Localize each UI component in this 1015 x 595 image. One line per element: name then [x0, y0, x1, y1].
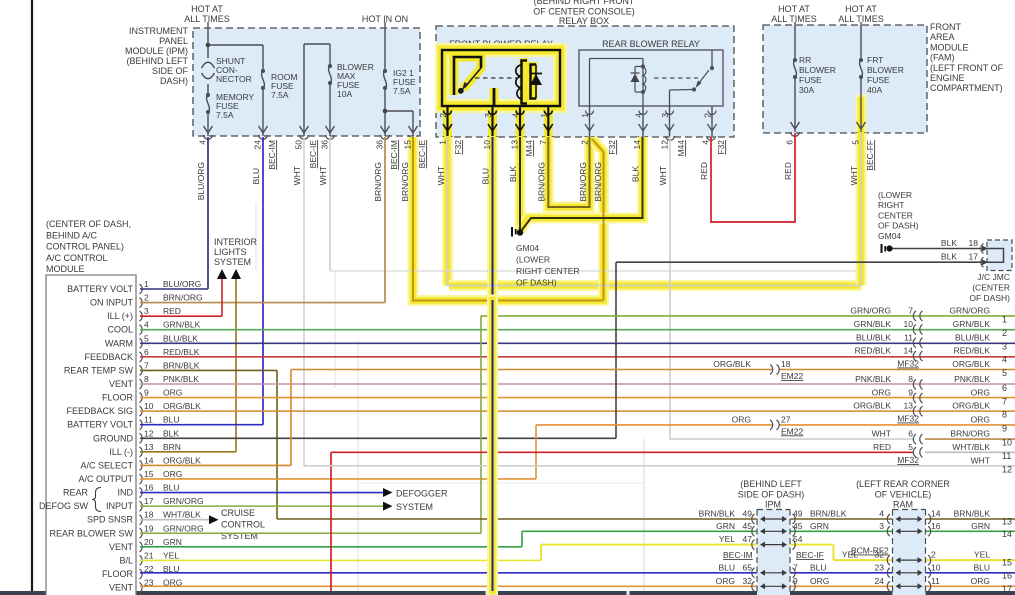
- svg-text:40A: 40A: [867, 85, 882, 95]
- svg-text:13: 13: [904, 401, 914, 411]
- svg-text:GRN/ORG: GRN/ORG: [163, 496, 204, 506]
- svg-text:REAR BLOWER SW: REAR BLOWER SW: [49, 528, 133, 538]
- svg-text:WHT: WHT: [872, 429, 891, 439]
- svg-text:(LOWER: (LOWER: [516, 255, 550, 265]
- wire row15 ORG: [140, 478, 536, 480]
- svg-text:BCM-RF2: BCM-RF2: [851, 546, 889, 556]
- rear relay dashed link: [654, 77, 698, 79]
- RR blower fuse: [793, 58, 797, 62]
- svg-text:WHT: WHT: [318, 166, 328, 185]
- svg-text:14: 14: [144, 455, 154, 465]
- svg-text:BLU: BLU: [251, 168, 261, 185]
- svg-text:ORG: ORG: [971, 388, 990, 398]
- svg-text:ORG: ORG: [716, 576, 735, 586]
- svg-text:BLU: BLU: [973, 562, 990, 572]
- memory fuse F: [207, 84, 209, 95]
- svg-text:FUSE: FUSE: [799, 75, 822, 85]
- svg-text:BLU: BLU: [718, 562, 735, 572]
- svg-text:4: 4: [879, 509, 884, 519]
- svg-text:BRN/BLK: BRN/BLK: [954, 509, 991, 519]
- front relay pin2 terminal bracket: [454, 57, 481, 95]
- svg-text:4: 4: [1002, 355, 1007, 365]
- wire FRT fuse out: [860, 77, 862, 132]
- svg-text:1: 1: [580, 113, 590, 118]
- svg-text:13: 13: [144, 442, 154, 452]
- svg-text:7: 7: [793, 562, 798, 572]
- svg-text:18: 18: [144, 510, 154, 520]
- svg-text:BEC-IE: BEC-IE: [308, 140, 318, 169]
- svg-text:WARM: WARM: [105, 338, 133, 348]
- svg-text:5: 5: [144, 333, 149, 343]
- wire row14 ORG/BLK: [140, 464, 291, 466]
- svg-text:AREA: AREA: [930, 32, 955, 42]
- wire WHT link to FAM feed: [330, 270, 856, 272]
- svg-text:WHT: WHT: [971, 455, 990, 465]
- IPM connector arrows: [752, 514, 755, 524]
- svg-text:FLOOR: FLOOR: [102, 569, 134, 579]
- svg-text:A/C OUTPUT: A/C OUTPUT: [78, 474, 133, 484]
- wire BRN/ORG right row10: [925, 438, 1015, 440]
- svg-text:J/C JMC: J/C JMC: [977, 272, 1010, 282]
- svg-text:ORG/BLK: ORG/BLK: [853, 401, 891, 411]
- wire WHT M44-12 rear blower out: [670, 137, 913, 439]
- svg-text:11: 11: [1002, 451, 1011, 461]
- highlight FRT fuse out: [856, 100, 867, 133]
- svg-text:BLU: BLU: [163, 483, 180, 493]
- svg-text:BRN/ORG: BRN/ORG: [950, 429, 990, 439]
- ghost line vertical d: [255, 203, 257, 270]
- svg-text:WHT: WHT: [292, 166, 302, 185]
- svg-text:18: 18: [781, 359, 791, 369]
- svg-text:7.5A: 7.5A: [271, 90, 289, 100]
- svg-text:12: 12: [1002, 464, 1012, 474]
- svg-text:54: 54: [793, 534, 803, 544]
- svg-text:11: 11: [904, 332, 913, 342]
- svg-text:INPUT: INPUT: [106, 501, 134, 511]
- svg-text:10: 10: [904, 319, 914, 329]
- rear relay diode: [634, 67, 636, 93]
- svg-text:6: 6: [908, 429, 913, 439]
- highlighter f32 feed: [413, 137, 604, 301]
- svg-text:IPM: IPM: [765, 500, 781, 510]
- svg-text:OF DASH): OF DASH): [969, 293, 1010, 303]
- RAM connector arrows: [887, 514, 890, 524]
- svg-text:REAR: REAR: [63, 488, 89, 498]
- svg-text:(CENTER OF DASH,: (CENTER OF DASH,: [46, 219, 131, 229]
- svg-text:WHT/BLK: WHT/BLK: [952, 442, 990, 452]
- wire ig2 out: [384, 88, 386, 136]
- svg-text:YEL: YEL: [974, 550, 990, 560]
- svg-text:16: 16: [144, 483, 154, 493]
- bottom dark bar: [0, 591, 1015, 595]
- svg-text:6: 6: [1002, 383, 1007, 393]
- relay box: [436, 26, 734, 137]
- wire BRN/ORG F32-7 coil U: [548, 137, 589, 207]
- svg-text:PANEL: PANEL: [159, 36, 188, 46]
- svg-text:MF32: MF32: [897, 455, 919, 465]
- svg-text:FRONT: FRONT: [930, 22, 961, 32]
- svg-text:11: 11: [931, 576, 940, 586]
- svg-text:BATTERY VOLT: BATTERY VOLT: [67, 420, 133, 430]
- svg-text:GRN: GRN: [716, 521, 735, 531]
- svg-text:3: 3: [879, 521, 884, 531]
- svg-text:45: 45: [743, 521, 753, 531]
- wire BLK M44-13 front ground: [519, 137, 521, 231]
- svg-text:RED/BLK: RED/BLK: [163, 347, 200, 357]
- svg-text:COMPARTMENT): COMPARTMENT): [930, 83, 1003, 93]
- svg-text:10: 10: [144, 401, 154, 411]
- svg-text:18: 18: [969, 238, 979, 248]
- svg-text:VENT: VENT: [109, 583, 134, 593]
- svg-text:BRN/ORG: BRN/ORG: [400, 162, 410, 202]
- svg-text:15: 15: [1002, 558, 1012, 568]
- svg-text:20: 20: [144, 537, 154, 547]
- svg-text:BLK: BLK: [941, 238, 957, 248]
- wire BLK to JC 18: [893, 248, 983, 250]
- svg-text:GRN: GRN: [163, 537, 182, 547]
- front relay U1 outline: [442, 50, 560, 106]
- wire RED MF32-5: [330, 452, 332, 591]
- svg-text:3: 3: [1002, 341, 1007, 351]
- svg-text:24: 24: [253, 140, 263, 150]
- svg-text:14: 14: [632, 140, 642, 150]
- svg-text:BLU/BLK: BLU/BLK: [955, 332, 990, 342]
- front relay switch arm: [465, 68, 482, 88]
- svg-text:HOT AT: HOT AT: [191, 4, 223, 14]
- svg-text:IND: IND: [118, 488, 134, 498]
- svg-text:2: 2: [1002, 328, 1007, 338]
- wire blower max loop: [303, 44, 305, 136]
- front relay diode: [535, 65, 537, 99]
- wire WHT MF32 row12: [304, 465, 1015, 467]
- wire row4 GRN/BLK: [140, 329, 1015, 331]
- svg-text:PNK/BLK: PNK/BLK: [855, 374, 891, 384]
- svg-text:WHT: WHT: [849, 166, 859, 185]
- svg-text:YEL: YEL: [719, 534, 735, 544]
- svg-text:2: 2: [580, 140, 590, 145]
- svg-text:(LOWER: (LOWER: [878, 190, 912, 200]
- svg-text:MODULE: MODULE: [930, 42, 969, 52]
- front relay coil brackets: [522, 61, 528, 104]
- wire row1 BLU/ORG: [140, 288, 208, 290]
- svg-text:FLOOR: FLOOR: [102, 393, 134, 403]
- wire BLU F32-10 front blower out: [492, 137, 494, 310]
- svg-text:3: 3: [660, 113, 670, 118]
- wire row9 ORG: [140, 397, 1015, 399]
- svg-text:BLOWER: BLOWER: [799, 65, 836, 75]
- svg-text:RED: RED: [163, 306, 181, 316]
- svg-text:SYSTEM: SYSTEM: [214, 257, 251, 267]
- svg-text:WHT/BLK: WHT/BLK: [163, 510, 201, 520]
- svg-text:FEEDBACK: FEEDBACK: [84, 352, 133, 362]
- svg-text:23: 23: [875, 562, 885, 572]
- svg-text:9: 9: [908, 388, 913, 398]
- svg-text:GRN/ORG: GRN/ORG: [850, 305, 891, 315]
- svg-text:GRN/BLK: GRN/BLK: [854, 319, 892, 329]
- svg-text:(LEFT REAR CORNER: (LEFT REAR CORNER: [856, 479, 950, 489]
- svg-text:2: 2: [703, 113, 713, 118]
- svg-text:BLK: BLK: [508, 166, 518, 182]
- svg-text:SPD SNSR: SPD SNSR: [87, 515, 134, 525]
- wire row7 BRN/BLK to bottom: [140, 369, 277, 371]
- jumper inside JC: [986, 249, 1004, 263]
- svg-text:12: 12: [660, 140, 670, 150]
- svg-text:ORG: ORG: [872, 388, 891, 398]
- svg-text:16: 16: [1002, 570, 1012, 580]
- svg-text:5: 5: [1002, 368, 1007, 378]
- svg-text:PNK/BLK: PNK/BLK: [954, 374, 990, 384]
- svg-text:9: 9: [1002, 423, 1007, 433]
- svg-text:65: 65: [743, 562, 753, 572]
- svg-text:1: 1: [438, 140, 448, 145]
- wire RR fuse feed: [794, 22, 796, 60]
- svg-text:49: 49: [793, 509, 803, 519]
- wire row2 BRN/ORG: [140, 302, 385, 304]
- ig2 fuse: [383, 69, 387, 73]
- svg-text:BEC-IM: BEC-IM: [267, 140, 277, 170]
- svg-text:(BEHIND RIGHT FRONT: (BEHIND RIGHT FRONT: [534, 0, 635, 6]
- svg-text:BRN/ORG: BRN/ORG: [593, 162, 603, 202]
- svg-text:SIDE OF DASH): SIDE OF DASH): [738, 490, 805, 500]
- svg-text:ORG: ORG: [163, 469, 182, 479]
- svg-text:36: 36: [375, 140, 385, 150]
- wire BRN/ORG F32-2 feed diagonal: [592, 139, 604, 301]
- wire memory fuse out: [207, 112, 209, 136]
- wire room fuse out: [262, 88, 264, 136]
- highlighter blk gm04: [515, 137, 526, 232]
- shunt connector symbol: [202, 62, 215, 68]
- svg-text:BRN: BRN: [163, 442, 181, 452]
- AC control module box: [46, 275, 136, 595]
- wire row16 BLU defogger: [140, 492, 384, 494]
- svg-text:A/C CONTROL: A/C CONTROL: [46, 253, 108, 263]
- svg-text:HOT AT: HOT AT: [845, 4, 877, 14]
- wire BRN/ORG pin36b: [384, 137, 386, 303]
- svg-text:GROUND: GROUND: [93, 433, 133, 443]
- svg-text:RAM: RAM: [893, 500, 913, 510]
- svg-text:3: 3: [144, 306, 149, 316]
- wire BLK M44-14 rear ground: [522, 137, 643, 231]
- svg-text:ORG/BLK: ORG/BLK: [713, 359, 751, 369]
- svg-text:OF DASH): OF DASH): [516, 278, 557, 288]
- svg-text:F32: F32: [607, 140, 617, 155]
- svg-text:VENT: VENT: [109, 542, 134, 552]
- svg-text:F32: F32: [716, 140, 726, 155]
- svg-text:7: 7: [908, 305, 913, 315]
- node junction at top feed: [206, 43, 211, 48]
- svg-text:BRN/BLK: BRN/BLK: [163, 360, 200, 370]
- svg-text:GM04: GM04: [516, 243, 539, 253]
- svg-text:OF VEHICLE): OF VEHICLE): [875, 490, 932, 500]
- svg-text:RIGHT CENTER: RIGHT CENTER: [516, 266, 580, 276]
- svg-text:BEC-IE: BEC-IE: [417, 140, 427, 169]
- svg-text:SYSTEM: SYSTEM: [396, 502, 433, 512]
- svg-text:MODULE (IPM): MODULE (IPM): [125, 46, 188, 56]
- svg-text:13: 13: [1002, 517, 1012, 527]
- svg-text:M44: M44: [524, 140, 534, 157]
- svg-text:ON INPUT: ON INPUT: [90, 298, 134, 308]
- wire row11 BLU: [140, 424, 263, 426]
- svg-text:RED/BLK: RED/BLK: [954, 346, 991, 356]
- svg-text:F32: F32: [453, 140, 463, 155]
- ghost line vertical b: [334, 271, 336, 388]
- svg-text:ALL TIMES: ALL TIMES: [771, 14, 817, 24]
- svg-text:B/L: B/L: [119, 555, 133, 565]
- svg-text:7.5A: 7.5A: [393, 86, 411, 96]
- rear relay coil: [642, 59, 644, 107]
- svg-text:GRN: GRN: [971, 521, 990, 531]
- svg-text:GM04: GM04: [878, 231, 901, 241]
- ghost line vertical c: [643, 439, 645, 591]
- wire BRN/ORG pin15 hl: [413, 137, 604, 301]
- FAM bottom edge bumps: [791, 132, 800, 136]
- svg-text:(LEFT FRONT OF: (LEFT FRONT OF: [930, 63, 1004, 73]
- wire row17 GRN/ORG defogger: [140, 505, 384, 507]
- svg-text:7: 7: [1002, 397, 1007, 407]
- svg-text:BLU/ORG: BLU/ORG: [163, 279, 201, 289]
- svg-text:ORG/BLK: ORG/BLK: [952, 359, 990, 369]
- room fuse: [261, 69, 265, 73]
- wire ig2 feed: [384, 22, 386, 71]
- IPM fuse box (top left): [193, 28, 420, 136]
- svg-text:BLU/BLK: BLU/BLK: [163, 333, 198, 343]
- svg-text:10: 10: [1002, 438, 1012, 448]
- wire RR fuse out: [794, 77, 796, 132]
- svg-text:CENTER: CENTER: [878, 210, 913, 220]
- svg-text:49: 49: [743, 509, 753, 519]
- svg-text:BLU: BLU: [810, 562, 827, 572]
- svg-text:1: 1: [144, 279, 149, 289]
- svg-text:32: 32: [743, 576, 753, 586]
- svg-text:8: 8: [908, 374, 913, 384]
- highlighter blu vertical lower: [487, 300, 498, 591]
- wire row9r ORG right: [779, 424, 1015, 426]
- wire RED F32-4 rear feed: [711, 133, 795, 222]
- svg-text:17: 17: [144, 496, 154, 506]
- svg-text:BLK: BLK: [941, 252, 957, 262]
- svg-text:BLU: BLU: [481, 168, 491, 185]
- relay box bottom edge bumps: [443, 136, 452, 140]
- svg-text:FRT: FRT: [867, 55, 883, 65]
- rear relay coil top link: [590, 58, 644, 60]
- front relay pin3 stub: [493, 88, 496, 106]
- ground GM04: [517, 229, 523, 235]
- wire WHT F32-1 front feed: [448, 133, 862, 286]
- svg-text:REAR TEMP SW: REAR TEMP SW: [64, 365, 134, 375]
- rear relay pin stubs: [589, 106, 591, 136]
- wire hot feed into IPM: [207, 22, 209, 58]
- svg-text:BLU: BLU: [163, 415, 180, 425]
- svg-text:EM22: EM22: [781, 426, 803, 436]
- svg-text:4: 4: [511, 113, 521, 118]
- svg-text:(BEHIND LEFT: (BEHIND LEFT: [126, 56, 188, 66]
- svg-text:BATTERY VOLT: BATTERY VOLT: [67, 284, 133, 294]
- JC bumps: [981, 244, 984, 254]
- svg-text:CONTROL PANEL): CONTROL PANEL): [46, 242, 124, 252]
- rear relay U2 outline: [579, 50, 723, 106]
- svg-text:LIGHTS: LIGHTS: [214, 247, 247, 257]
- svg-text:3: 3: [483, 113, 493, 118]
- svg-text:5: 5: [908, 442, 913, 452]
- ghost line vertical a: [357, 340, 359, 591]
- svg-text:17: 17: [1002, 584, 1012, 594]
- svg-text:CONTROL: CONTROL: [221, 520, 265, 530]
- svg-text:BEC-IF: BEC-IF: [796, 550, 824, 560]
- wire WHT pin36a: [329, 137, 331, 271]
- svg-text:ORG: ORG: [810, 576, 829, 586]
- wire blower max out: [329, 83, 331, 136]
- wire row18 WHT/BLK cruise: [140, 519, 210, 521]
- svg-text:BEC-IM: BEC-IM: [723, 550, 753, 560]
- svg-text:1: 1: [1002, 314, 1007, 324]
- svg-text:4: 4: [144, 320, 149, 330]
- svg-text:ENGINE: ENGINE: [930, 73, 965, 83]
- wire BLU pin24: [262, 137, 264, 425]
- svg-text:47: 47: [743, 534, 753, 544]
- svg-text:50: 50: [294, 140, 304, 150]
- highlighter front feed path: [442, 137, 453, 286]
- svg-text:10: 10: [482, 140, 492, 150]
- svg-text:WHT: WHT: [658, 166, 668, 185]
- svg-text:GRN/ORG: GRN/ORG: [949, 305, 990, 315]
- wire WHT/BLK right row11: [925, 451, 1015, 453]
- svg-text:INTERIOR: INTERIOR: [214, 237, 258, 247]
- svg-text:HOT AT: HOT AT: [778, 4, 810, 14]
- svg-text:14: 14: [904, 346, 914, 356]
- wire row5r ORG/BLK right: [779, 369, 1015, 371]
- rear relay switch: [711, 50, 713, 68]
- wire row13 BRN to interior lights: [140, 451, 236, 453]
- wire BLU front blower lower: [492, 300, 494, 591]
- wire YEL step down right: [833, 545, 835, 561]
- svg-text:5: 5: [851, 140, 861, 145]
- svg-text:11: 11: [144, 415, 153, 425]
- svg-text:BEHIND A/C: BEHIND A/C: [46, 230, 98, 240]
- wire row6 RED/BLK: [140, 356, 1015, 358]
- svg-text:1: 1: [539, 113, 549, 118]
- svg-text:24: 24: [875, 576, 885, 586]
- svg-text:RED: RED: [783, 162, 793, 180]
- svg-text:15: 15: [144, 469, 154, 479]
- svg-text:2: 2: [144, 293, 149, 303]
- wire ig2 branch right: [385, 110, 413, 112]
- svg-text:BRN/BLK: BRN/BLK: [699, 509, 736, 519]
- svg-text:MF32: MF32: [897, 414, 919, 424]
- front relay coil arcs: [516, 65, 522, 99]
- svg-text:BEC-FF: BEC-FF: [865, 140, 875, 171]
- svg-text:ORG: ORG: [163, 388, 182, 398]
- svg-text:36: 36: [320, 140, 330, 150]
- highlighter coil U: [548, 137, 589, 207]
- wire row19 GRN/ORG up: [140, 532, 481, 534]
- svg-text:GRN/ORG: GRN/ORG: [163, 523, 204, 533]
- svg-text:BRN/ORG: BRN/ORG: [163, 293, 203, 303]
- svg-text:A/C SELECT: A/C SELECT: [80, 460, 133, 470]
- RAM connector box: [893, 510, 926, 595]
- front relay pin stubs: [446, 106, 448, 136]
- svg-text:6: 6: [144, 347, 149, 357]
- blower max fuse: [328, 64, 332, 68]
- wire row12 BLK ground to JC: [140, 437, 616, 439]
- svg-text:FUSE: FUSE: [867, 75, 890, 85]
- svg-text:13: 13: [510, 140, 520, 150]
- svg-text:GRN: GRN: [810, 521, 829, 531]
- svg-text:BLK: BLK: [631, 166, 641, 182]
- svg-text:4: 4: [701, 140, 711, 145]
- svg-text:BLOWER: BLOWER: [867, 65, 904, 75]
- svg-text:12: 12: [144, 428, 154, 438]
- front relay coil-switch dashed link: [475, 77, 518, 79]
